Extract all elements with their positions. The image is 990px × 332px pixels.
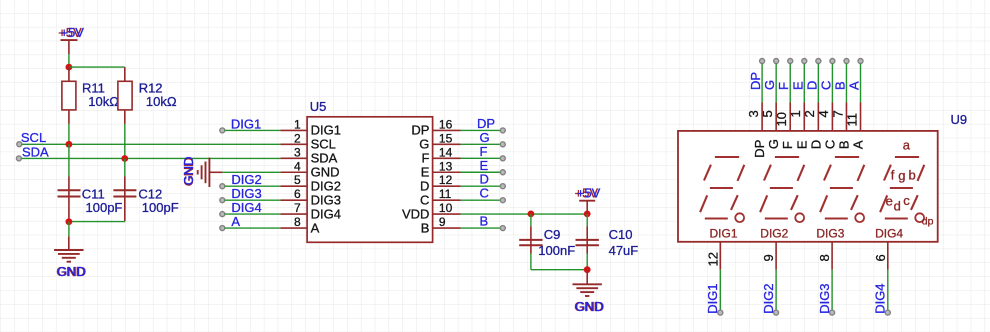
svg-text:D: D [480, 172, 489, 187]
junction +5V / R11 / R12 [66, 64, 73, 71]
svg-text:DIG3: DIG3 [816, 226, 844, 240]
svg-text:DIG4: DIG4 [231, 200, 261, 215]
svg-text:10: 10 [439, 201, 453, 215]
svg-text:1: 1 [788, 110, 803, 117]
U5 pin 8 (A) [280, 227, 307, 229]
svg-text:5: 5 [760, 110, 775, 117]
svg-text:a: a [903, 137, 911, 152]
svg-text:G: G [766, 139, 781, 149]
svg-text:g: g [898, 168, 905, 183]
7-segment digit 4 drawing [880, 157, 924, 222]
svg-text:16: 16 [439, 117, 453, 131]
U5 pin 12 (D) [433, 185, 461, 187]
svg-text:4: 4 [294, 159, 301, 173]
junction SCL / R11 / C11 [66, 141, 73, 148]
svg-text:DIG4: DIG4 [875, 226, 903, 240]
svg-text:8: 8 [817, 254, 832, 261]
wire SDA to C12 [124, 159, 126, 177]
svg-text:C9: C9 [544, 227, 561, 242]
svg-text:12: 12 [439, 173, 453, 187]
svg-text:D: D [804, 81, 819, 90]
node SDA left endpoint [16, 156, 21, 161]
svg-text:A: A [311, 220, 320, 235]
svg-text:2: 2 [294, 131, 301, 145]
svg-text:10: 10 [774, 112, 789, 126]
svg-text:DIG2: DIG2 [761, 283, 776, 313]
svg-text:e: e [886, 193, 893, 208]
wire [860, 64, 862, 103]
svg-text:D: D [808, 140, 823, 149]
svg-text:f: f [891, 167, 895, 182]
supply +5V symbol P1 [61, 39, 78, 41]
wire +5V stem to junction [68, 54, 70, 67]
svg-text:G: G [762, 80, 777, 90]
wire R12 to SDA (crosses SCL) [124, 124, 126, 159]
svg-text:E: E [790, 81, 805, 90]
wire junction to GND symbol [68, 222, 70, 237]
svg-text:b: b [909, 168, 916, 183]
net DIG1 to U5 pin 1 [220, 128, 225, 133]
svg-text:D: D [420, 178, 429, 193]
wire [831, 64, 833, 103]
U5 pin 2 (SCL) [280, 143, 307, 145]
svg-text:E: E [794, 140, 809, 149]
U9 pin 12 (DIG1) bottom [719, 242, 721, 270]
svg-text:3: 3 [746, 110, 761, 117]
svg-text:100nF: 100nF [538, 243, 575, 258]
wire [461, 171, 501, 173]
U9 pin 9 (DIG2) bottom [775, 242, 777, 270]
wire [719, 270, 721, 310]
svg-text:dp: dp [922, 216, 934, 228]
supply +5V symbol P2 [579, 200, 595, 202]
svg-text:DIG2: DIG2 [311, 178, 341, 193]
svg-text:c: c [903, 193, 910, 208]
wire [461, 129, 501, 131]
U5 pin 5 (DIG2) [280, 185, 307, 187]
svg-text:+5V: +5V [577, 186, 601, 201]
svg-text:6: 6 [294, 187, 301, 201]
U5 pin 13 (E) [433, 171, 461, 173]
svg-text:C: C [480, 186, 489, 201]
svg-text:GND: GND [181, 156, 196, 185]
U5 pin 11 (C) [433, 199, 461, 201]
svg-text:DIG3: DIG3 [231, 186, 261, 201]
wire [461, 213, 588, 215]
svg-text:G: G [480, 130, 490, 145]
svg-text:F: F [421, 151, 429, 166]
svg-text:DP: DP [752, 140, 767, 158]
U9 pin 6 (DIG4) bottom [887, 242, 889, 270]
wire [461, 199, 501, 201]
wire C9/C10 bottoms [531, 269, 587, 271]
svg-text:B: B [480, 214, 489, 229]
wire [225, 185, 281, 187]
wire [845, 64, 847, 103]
svg-text:B: B [836, 140, 851, 149]
svg-text:GND: GND [57, 264, 86, 279]
svg-text:C: C [822, 140, 837, 149]
svg-text:12: 12 [705, 252, 720, 266]
svg-text:10kΩ: 10kΩ [88, 94, 119, 109]
svg-text:DP: DP [477, 116, 495, 131]
svg-text:DIG3: DIG3 [817, 283, 832, 313]
svg-text:15: 15 [439, 131, 453, 145]
wire [461, 143, 501, 145]
svg-text:SCL: SCL [21, 130, 46, 145]
U5 pin 4 (GND) [280, 171, 307, 173]
resistor R11 [62, 81, 76, 110]
wire SCL to C11 [68, 144, 70, 176]
svg-text:E: E [421, 164, 430, 179]
svg-text:DIG1: DIG1 [231, 116, 261, 131]
svg-text:3: 3 [294, 145, 301, 159]
U9 pin 2 (D) top [816, 59, 821, 64]
wire R11 to SCL [68, 124, 70, 144]
svg-text:A: A [851, 140, 866, 149]
wire +5V to C10 [586, 214, 588, 226]
svg-text:100pF: 100pF [142, 200, 179, 215]
svg-text:+5V: +5V [60, 25, 84, 40]
wire [225, 213, 281, 215]
wire [225, 227, 281, 229]
svg-text:C: C [818, 81, 833, 90]
net A to U5 [220, 226, 225, 231]
svg-text:DIG1: DIG1 [705, 283, 720, 313]
junction VDD / +5V / C10 [584, 211, 591, 218]
wire [225, 129, 281, 131]
svg-text:DP: DP [748, 72, 763, 90]
svg-text:U9: U9 [951, 112, 968, 127]
junction C11 bottom / GND [66, 218, 73, 225]
wire [789, 64, 791, 103]
resistor R12 [118, 81, 132, 110]
svg-text:1: 1 [294, 117, 301, 131]
svg-text:DIG2: DIG2 [231, 172, 261, 187]
svg-text:100pF: 100pF [86, 200, 123, 215]
svg-text:A: A [231, 214, 240, 229]
net DIG4 to U5 [220, 212, 225, 217]
7-segment digit 1 drawing [700, 157, 744, 222]
svg-text:U5: U5 [310, 99, 327, 114]
svg-text:E: E [480, 158, 489, 173]
svg-text:6: 6 [873, 254, 888, 261]
svg-text:2: 2 [802, 110, 817, 117]
svg-text:8: 8 [294, 215, 301, 229]
net DIG2 to U5 [220, 184, 225, 189]
wire [461, 227, 501, 229]
U9 pin 5 (G) top [774, 59, 779, 64]
svg-text:GND: GND [575, 299, 604, 314]
wire +5V to R12 [69, 66, 125, 68]
svg-text:d: d [894, 199, 901, 214]
svg-text:DP: DP [411, 123, 429, 138]
svg-text:DIG1: DIG1 [311, 123, 341, 138]
7-segment digit 3 drawing [820, 157, 864, 222]
wire GND symbol to U5 pin 4 [222, 171, 280, 173]
svg-text:G: G [419, 137, 429, 152]
svg-text:GND: GND [311, 164, 340, 179]
svg-text:VDD: VDD [402, 206, 429, 221]
svg-text:C: C [420, 192, 429, 207]
svg-text:11: 11 [439, 187, 452, 201]
svg-text:7: 7 [830, 110, 845, 117]
svg-text:SCL: SCL [311, 137, 336, 152]
U9 pin 7 (B) top [844, 59, 849, 64]
ground symbol GND (below C10) [586, 270, 588, 285]
U5 pin 6 (DIG3) [280, 199, 307, 201]
wire [775, 64, 777, 103]
wire C9 to GND net [530, 254, 532, 270]
svg-text:4: 4 [816, 110, 831, 117]
U5 pin 16 (DP) [433, 129, 461, 131]
svg-text:B: B [421, 220, 430, 235]
svg-text:10kΩ: 10kΩ [146, 94, 177, 109]
svg-text:DIG2: DIG2 [760, 226, 788, 240]
wire VDD to C9 [530, 214, 532, 226]
svg-text:F: F [780, 141, 795, 149]
wire [761, 64, 763, 103]
svg-text:9: 9 [439, 215, 446, 229]
junction SDA / R12 / C12 [121, 155, 128, 162]
junction C10 bottom / GND [584, 266, 591, 273]
U9 pin 11 (A) top [858, 59, 863, 64]
net DIG3 to U5 [220, 198, 225, 203]
svg-text:DIG4: DIG4 [873, 283, 888, 313]
U5 pin 1 (DIG1) [280, 129, 307, 131]
7-segment digit 2 drawing [760, 157, 804, 222]
wire [461, 185, 501, 187]
wire [887, 270, 889, 310]
svg-text:C10: C10 [609, 227, 633, 242]
wire [803, 64, 805, 103]
svg-text:A: A [847, 81, 862, 90]
svg-text:47uF: 47uF [609, 243, 639, 258]
svg-text:F: F [776, 82, 791, 90]
U9 pin 3 (DP) top [760, 59, 765, 64]
svg-text:B: B [832, 81, 847, 90]
7-segment display U9 body [678, 131, 938, 242]
U5 pin 3 (SDA) [280, 157, 307, 159]
svg-text:14: 14 [439, 145, 453, 159]
svg-text:SDA: SDA [311, 151, 338, 166]
wire C11/C12 bottoms [69, 221, 125, 223]
wire [831, 270, 833, 310]
svg-text:7: 7 [294, 201, 301, 215]
svg-text:11: 11 [844, 113, 859, 127]
U5 pin 15 (G) [433, 143, 461, 145]
U9 pin 8 (DIG3) bottom [831, 242, 833, 270]
node SCL left endpoint [17, 142, 22, 147]
wire [461, 157, 501, 159]
wire SCL to U5 pin 2 [22, 143, 281, 145]
ground symbol GND (left) [68, 236, 70, 250]
svg-text:SDA: SDA [22, 144, 49, 159]
svg-text:5: 5 [294, 173, 301, 187]
U5 pin 9 (B) [433, 227, 461, 229]
U9 pin 1 (E) top [802, 59, 807, 64]
U5 pin 14 (F) [433, 157, 461, 159]
U9 pin 10 (F) top [788, 59, 793, 64]
op-amp / driver IC U5 body [307, 117, 433, 243]
wire [225, 199, 281, 201]
U5 pin 10 (VDD) [433, 213, 461, 215]
svg-text:F: F [480, 144, 488, 159]
U9 pin 4 (C) top [830, 59, 835, 64]
svg-text:13: 13 [439, 159, 453, 173]
junction VDD / C9 [528, 211, 535, 218]
svg-text:DIG4: DIG4 [311, 206, 341, 221]
wire [817, 64, 819, 103]
svg-text:DIG1: DIG1 [710, 226, 738, 240]
wire [775, 270, 777, 310]
svg-text:9: 9 [761, 254, 776, 261]
svg-text:DIG3: DIG3 [311, 192, 341, 207]
wire C10 to GND [586, 254, 588, 270]
U5 pin 7 (DIG4) [280, 213, 307, 215]
wire SDA to U5 pin 3 [21, 157, 280, 159]
